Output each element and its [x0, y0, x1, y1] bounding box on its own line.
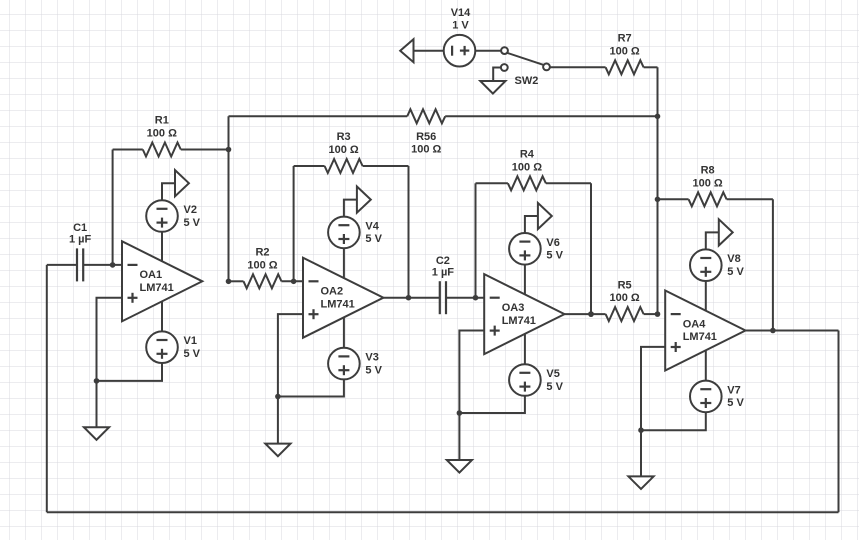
svg-text:LM741: LM741	[321, 298, 355, 310]
svg-text:5 V: 5 V	[727, 266, 744, 278]
node flag (left arrow) at V14 minus	[400, 39, 413, 62]
junction C1/R1/OA1 minus	[110, 262, 116, 268]
svg-text:5 V: 5 V	[365, 364, 382, 376]
junction R3/OA2 out	[406, 295, 412, 301]
wire OA3 plus to ground net	[459, 331, 484, 461]
svg-text:V1: V1	[184, 335, 197, 347]
junction R4/OA3 out	[588, 311, 594, 317]
svg-text:C2: C2	[436, 255, 450, 267]
svg-text:R56: R56	[416, 131, 436, 143]
voltage source V6	[509, 233, 563, 265]
svg-text:5 V: 5 V	[727, 397, 744, 409]
svg-text:100 Ω: 100 Ω	[147, 128, 177, 140]
svg-text:V3: V3	[365, 352, 378, 364]
junction OA4 plus/V7	[638, 427, 644, 433]
svg-text:5 V: 5 V	[365, 233, 382, 245]
wire V5 bottom to ground net	[459, 396, 525, 413]
ground at OA4	[628, 476, 653, 489]
svg-text:OA2: OA2	[321, 286, 344, 298]
net flag at V2	[162, 170, 189, 200]
wire V7 top to OA4	[705, 351, 707, 381]
junction R2/R3/OA2 minus	[291, 279, 297, 285]
resistor R56	[229, 109, 658, 155]
junction R8/OA4 out	[770, 328, 776, 334]
svg-text:V2: V2	[184, 204, 197, 216]
voltage source V8	[690, 249, 744, 281]
wire R4 left vertical	[475, 183, 477, 297]
svg-text:100 Ω: 100 Ω	[411, 144, 441, 156]
svg-text:1 V: 1 V	[452, 20, 469, 32]
op-amp OA1	[122, 241, 202, 321]
svg-text:OA4: OA4	[683, 318, 707, 330]
wire OA1 plus to ground net	[97, 298, 123, 428]
wire V4 bottom to OA2	[343, 248, 345, 278]
op-amp OA3	[484, 274, 564, 354]
svg-text:100 Ω: 100 Ω	[512, 161, 542, 173]
wire V8 bottom to OA4	[705, 281, 707, 311]
capacitor C1	[47, 222, 122, 281]
wire V1 bottom to ground net	[97, 363, 163, 381]
svg-text:5 V: 5 V	[546, 381, 563, 393]
svg-text:R5: R5	[618, 279, 632, 291]
wire R3 left vertical	[293, 166, 295, 281]
resistor R1	[113, 115, 229, 157]
resistor R4	[476, 149, 592, 191]
net flag at V6	[525, 203, 552, 233]
svg-text:R4: R4	[520, 149, 535, 161]
svg-text:100 Ω: 100 Ω	[328, 144, 358, 156]
wire V2 bottom to OA1	[161, 232, 163, 262]
voltage source V2	[146, 200, 200, 232]
voltage source V7	[690, 381, 744, 413]
wire R1 left down to OA1 minus	[112, 150, 114, 265]
wire right vertical OA4 out to bottom	[838, 331, 840, 513]
wire flag to V14	[414, 50, 444, 52]
net flag at V8	[706, 219, 733, 249]
junction R8 tap	[655, 197, 661, 203]
junction R1 right	[226, 147, 232, 153]
V14 horizontal glyphs overlay	[452, 46, 469, 56]
voltage source V14	[444, 35, 476, 67]
wire V1 top to OA1	[161, 302, 163, 332]
svg-text:V4: V4	[365, 220, 379, 232]
svg-text:V14: V14	[451, 7, 471, 19]
wire R4 right vertical	[590, 183, 592, 314]
svg-text:SW2: SW2	[515, 75, 539, 87]
wire V14 to SW2	[475, 50, 501, 52]
svg-text:5 V: 5 V	[184, 348, 201, 360]
svg-text:V5: V5	[546, 368, 559, 380]
svg-text:100 Ω: 100 Ω	[692, 177, 722, 189]
junction R5/OA4 minus	[655, 311, 661, 317]
svg-text:1 µF: 1 µF	[432, 266, 455, 278]
ground at OA2	[265, 444, 290, 457]
svg-text:LM741: LM741	[502, 315, 536, 327]
wire V3 bottom to ground net	[278, 379, 344, 396]
svg-text:100 Ω: 100 Ω	[247, 259, 277, 271]
wire V5 top to OA3	[524, 334, 526, 364]
resistor R8	[658, 165, 773, 207]
resistor R7	[550, 33, 658, 75]
svg-text:C1: C1	[73, 222, 87, 234]
resistor R5	[565, 279, 658, 321]
wire R7 down to OA4 minus node	[657, 67, 659, 314]
svg-text:R7: R7	[618, 33, 632, 45]
svg-text:R3: R3	[337, 131, 351, 143]
svg-text:V7: V7	[727, 384, 740, 396]
svg-text:R1: R1	[155, 115, 169, 127]
wire V7 bottom to ground net	[641, 412, 706, 430]
junction OA3 plus/V5	[457, 410, 463, 416]
junction OA1 plus/V1	[94, 378, 100, 384]
op-amp OA4	[665, 291, 745, 371]
svg-text:5 V: 5 V	[546, 250, 563, 262]
svg-text:V6: V6	[546, 237, 559, 249]
svg-text:R2: R2	[255, 247, 269, 259]
ground at OA3	[447, 460, 472, 473]
svg-text:LM741: LM741	[683, 331, 717, 343]
svg-text:LM741: LM741	[140, 282, 174, 294]
ground at SW2	[480, 81, 505, 94]
voltage source V5	[509, 364, 563, 396]
op-amp OA2	[303, 258, 383, 338]
wire OA1 output node up to R56	[228, 116, 230, 281]
wire SW2 lower-left terminal to ground	[493, 68, 501, 82]
wire V3 top to OA2	[343, 318, 345, 348]
svg-text:OA3: OA3	[502, 302, 525, 314]
wire bottom feedback run	[47, 511, 839, 513]
voltage source V4	[328, 217, 382, 249]
wire R8 right vertical	[772, 199, 774, 330]
svg-text:V8: V8	[727, 253, 740, 265]
svg-text:R8: R8	[701, 165, 715, 177]
wire OA2 plus to ground net	[278, 314, 303, 444]
svg-text:100 Ω: 100 Ω	[609, 292, 639, 304]
svg-text:OA1: OA1	[140, 269, 163, 281]
wire V6 bottom to OA3	[524, 265, 526, 295]
net flag at V4	[344, 187, 371, 217]
svg-text:1 µF: 1 µF	[69, 234, 92, 246]
voltage source V1	[146, 331, 200, 363]
voltage source V3	[328, 348, 382, 380]
wire R3 right vertical	[408, 166, 410, 298]
resistor R3	[294, 131, 409, 173]
capacitor C2	[383, 255, 484, 314]
switch SW2	[501, 47, 550, 87]
wire OA4 output to right vertical	[746, 330, 839, 332]
ground at OA1	[84, 427, 109, 440]
junction OA2 plus/V3	[275, 394, 281, 400]
wire input loop left vertical	[46, 265, 48, 512]
resistor R2	[229, 247, 304, 289]
junction OA3 out/R5	[588, 311, 594, 317]
svg-text:100 Ω: 100 Ω	[609, 45, 639, 57]
junction OA1 output	[226, 279, 232, 285]
junction R56/R7	[655, 114, 661, 120]
junction C2/R4/OA3 minus	[473, 295, 479, 301]
wire OA4 plus to ground net	[641, 347, 665, 477]
svg-text:5 V: 5 V	[184, 217, 201, 229]
